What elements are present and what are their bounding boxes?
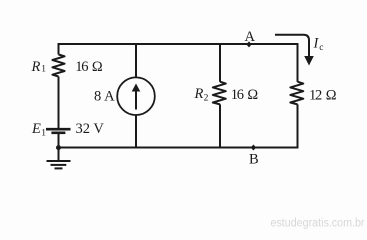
- node label A: [245, 29, 256, 45]
- label R1: [31, 59, 47, 75]
- wire top: [58, 43, 299, 45]
- wire current source bottom: [135, 115, 137, 148]
- wire left branch upper: [58, 43, 60, 55]
- ground: [47, 148, 71, 169]
- node B: [251, 145, 256, 151]
- value 32 V: [76, 121, 105, 137]
- resistor 12 ohm: [290, 82, 303, 105]
- svg-text:E: E: [31, 121, 41, 137]
- svg-text:12 Ω: 12 Ω: [309, 88, 337, 104]
- svg-text:B: B: [249, 152, 259, 168]
- svg-text:estudegratis.com.br: estudegratis.com.br: [271, 217, 365, 229]
- current source arrow: [132, 84, 141, 110]
- svg-text:R: R: [31, 59, 41, 75]
- svg-text:8 A: 8 A: [94, 89, 115, 105]
- battery E1: [46, 129, 71, 133]
- svg-text:R: R: [194, 86, 204, 102]
- label Ic: [313, 36, 324, 53]
- node A: [246, 41, 251, 47]
- wire battery to bottom: [58, 134, 60, 148]
- wire right branch lower: [297, 104, 299, 147]
- label R2: [194, 86, 209, 103]
- svg-text:A: A: [245, 29, 256, 45]
- value 8 A: [94, 89, 115, 105]
- wire R2 bottom: [219, 104, 221, 147]
- current source 8A circle: [117, 77, 155, 115]
- svg-text:32 V: 32 V: [76, 121, 105, 137]
- svg-text:2: 2: [204, 93, 209, 103]
- wire R1 to battery: [58, 77, 60, 129]
- value 12 ohm: [309, 88, 337, 104]
- wire right branch upper: [297, 43, 299, 82]
- resistor R2: [213, 82, 226, 105]
- junction dot: [56, 145, 61, 150]
- current arrow Ic: [275, 35, 314, 66]
- watermark: [271, 217, 365, 229]
- wire current source top: [135, 44, 137, 78]
- node label B: [249, 152, 259, 168]
- wire R2 top: [219, 44, 221, 82]
- value 16 ohm (R1): [75, 59, 103, 75]
- svg-text:16 Ω: 16 Ω: [231, 87, 259, 103]
- svg-text:1: 1: [41, 129, 46, 139]
- svg-text:1: 1: [41, 65, 46, 75]
- value 16 ohm (R2): [231, 87, 259, 103]
- wire bottom: [58, 147, 299, 149]
- resistor R1: [52, 55, 64, 77]
- svg-text:16 Ω: 16 Ω: [75, 59, 103, 75]
- svg-text:c: c: [319, 43, 323, 53]
- label E1: [31, 121, 46, 139]
